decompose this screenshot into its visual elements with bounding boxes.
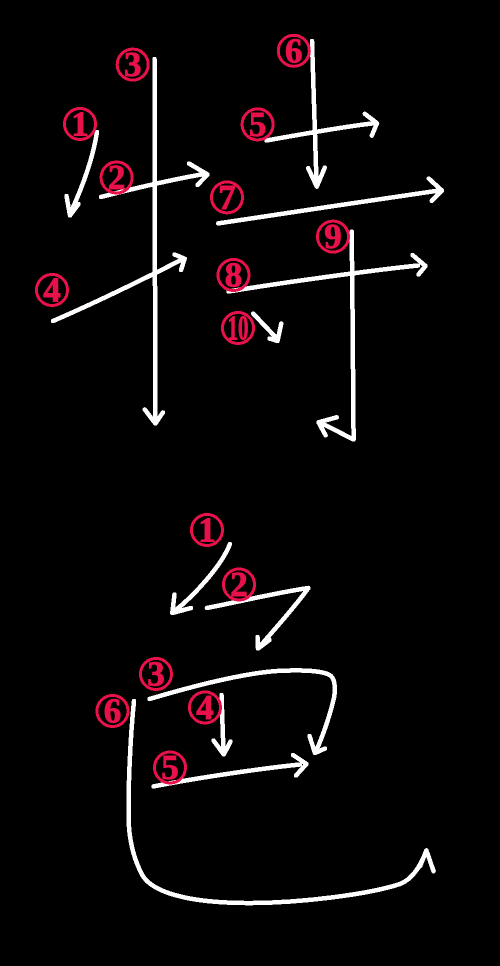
svg-text:6: 6 (285, 31, 303, 70)
svg-text:5: 5 (161, 748, 179, 787)
svg-text:4: 4 (196, 688, 214, 727)
svg-text:9: 9 (324, 217, 342, 256)
svg-text:2: 2 (230, 565, 248, 604)
svg-text:8: 8 (225, 256, 243, 295)
svg-text:4: 4 (43, 271, 61, 310)
svg-text:1: 1 (71, 105, 89, 144)
svg-text:1: 1 (198, 511, 216, 550)
svg-text:6: 6 (104, 692, 122, 731)
svg-text:2: 2 (108, 158, 126, 197)
svg-text:7: 7 (218, 178, 236, 217)
svg-text:5: 5 (249, 105, 267, 144)
svg-text:3: 3 (147, 655, 165, 694)
svg-text:10: 10 (228, 309, 249, 348)
svg-text:3: 3 (124, 45, 142, 84)
